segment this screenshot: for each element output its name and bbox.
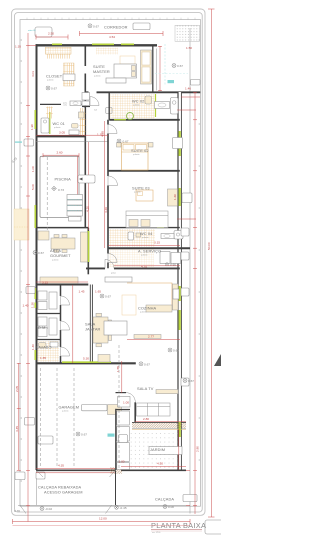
svg-text:ACESSO GARAGEM: ACESSO GARAGEM [44,490,83,495]
window top wall suite master [92,43,134,45]
svg-text:0.67: 0.67 [51,87,57,91]
hall right wall double [89,285,91,364]
window right wall jardim [179,422,181,437]
calcada divider wall [115,470,117,505]
armchair [108,405,122,415]
suite03 desk unit [126,211,168,228]
svg-text:CALÇADA: CALÇADA [155,497,174,502]
window right wall cozinha [179,286,181,301]
svg-text:1.00: 1.00 [119,460,125,464]
area gourmet top wall [36,227,88,229]
suite master wardrobe [141,50,152,84]
sala dresser [98,355,110,363]
svg-text:2.05: 2.05 [15,386,19,392]
suite master bench [106,78,126,83]
svg-text:-0.02: -0.02 [45,507,52,511]
servico bottom wall [86,267,180,269]
svg-text:5.00: 5.00 [31,184,35,190]
left dim label boxes [24,139,34,146]
svg-text:0.67: 0.67 [188,379,194,383]
svg-text:5.30: 5.30 [83,357,89,361]
wc04 bottom wall [108,247,190,249]
svg-text:SALA TV: SALA TV [137,386,154,391]
svg-text:PISCINA: PISCINA [55,177,72,182]
svg-text:p.direito: p.direito [52,259,58,262]
svg-text:4.50: 4.50 [157,462,163,466]
red dim suite height [158,46,162,91]
sliding door sala [62,361,111,363]
area gourmet bottom wall [36,284,88,286]
suite03 bottom wall [108,227,180,229]
top right concrete square [175,25,200,41]
dml appliances top room [38,291,47,300]
area gourmet grill [38,231,49,240]
svg-text:WC 04: WC 04 [140,231,153,236]
svg-text:p.direito: p.direito [134,191,140,194]
front wall label tags [15,472,25,480]
svg-text:4.45: 4.45 [15,426,19,432]
window top wall left [52,43,62,45]
svg-text:1.35: 1.35 [15,45,21,49]
svg-text:4.35: 4.35 [58,464,64,468]
svg-text:2.60: 2.60 [57,150,63,154]
sala sideboard [104,321,127,335]
suite03 bed [136,190,153,201]
svg-text:D.M.I: D.M.I [38,325,48,330]
svg-text:CORREDOR: CORREDOR [104,25,128,30]
big wall garage top [36,362,136,364]
left exterior wall [36,44,38,470]
wc04 shower [174,231,183,240]
wc02 plant [127,113,134,120]
right lot dim line [194,92,196,514]
gourmet lower counter [40,277,78,284]
svg-text:-0.45: -0.45 [120,506,127,510]
wc02 bottom wall [109,119,180,121]
svg-text:12.00: 12.00 [99,517,107,521]
svg-text:1.55: 1.55 [116,366,120,372]
wc02 floor hatch [111,94,155,119]
closet island [63,74,75,81]
wc02 shower [171,98,179,115]
window suite03 bottom [157,226,164,228]
svg-text:50.00: 50.00 [207,242,211,250]
servico floor hatch [109,250,154,268]
window left wall terrace [34,205,36,228]
wc02 sink counter [155,102,170,109]
svg-text:MASTER: MASTER [93,69,110,74]
svg-text:1.45: 1.45 [79,290,85,294]
suite02 bed [122,143,149,170]
sheet outer frame [12,9,205,515]
window left wall lavabo [34,350,36,360]
svg-text:0.67: 0.67 [144,362,150,366]
faint deck strip outside left [14,209,29,240]
svg-text:p.direito: p.direito [142,236,148,239]
svg-text:0.67: 0.67 [81,433,87,437]
garagem label box [82,405,108,411]
dml block right wall [60,285,62,364]
garage depth dim line [17,363,21,470]
svg-text:4.35: 4.35 [100,131,104,137]
svg-text:COZINHA: COZINHA [138,306,157,311]
suite02 bottom wall [108,170,180,172]
wc04 toilet [128,232,134,240]
suite03 wardrobe [168,189,178,206]
area gourmet counter [81,232,88,262]
suite02 side tables [117,143,122,148]
jardim planter [149,447,182,455]
area gourmet right wall [87,228,89,274]
svg-text:p.direito: p.direito [133,104,139,107]
svg-text:GOURMET: GOURMET [50,253,71,258]
svg-text:4.54: 4.54 [109,35,115,39]
central corridor wall (right rooms left wall) [107,120,109,268]
suite master inner right wall [152,45,154,93]
svg-text:1.50: 1.50 [186,46,192,50]
terrace step line [36,140,108,142]
wc01 shower [41,118,49,133]
lavabo sink [50,342,58,347]
svg-text:1.65: 1.65 [95,290,101,294]
closet hanging block top [46,47,72,54]
shower screen wc02 [155,94,157,117]
svg-text:4.20: 4.20 [85,206,89,212]
sala tv rack [156,390,178,394]
svg-text:p.direito: p.direito [62,410,68,413]
ruler dots left [21,39,22,481]
top left rounded box [35,27,52,37]
svg-text:1.30: 1.30 [31,302,35,308]
svg-text:0.00: 0.00 [168,505,174,509]
ruler ticks top [27,18,195,20]
closet / suite master dividing wall [84,45,86,228]
svg-text:0.70: 0.70 [14,509,20,513]
suite master bed [114,64,137,78]
dml appliances [38,317,47,326]
kitchen rug outline [122,295,136,315]
north triangle [214,354,221,366]
svg-text:2.80: 2.80 [196,446,200,452]
svg-text:GARAGEM: GARAGEM [59,404,80,409]
svg-text:3.15: 3.15 [154,241,160,245]
hatch on wall start [110,467,122,474]
pool [40,156,79,217]
svg-text:0.67: 0.67 [38,251,44,255]
svg-text:esc: 1/100: esc: 1/100 [152,532,160,534]
calcada label box [183,495,197,502]
porch diagonal hatch band [132,423,186,428]
svg-text:WC 01: WC 01 [53,121,65,126]
svg-text:LAVABO: LAVABO [36,345,52,350]
svg-text:0.67: 0.67 [105,295,111,299]
wc04 sink [161,234,174,239]
entry vestibule walls [115,409,117,470]
big window area gourmet [87,231,89,262]
svg-text:p.direito: p.direito [133,153,139,156]
wall under suite master / wc02 top [85,91,200,93]
wc02 toilet [145,96,152,104]
lavabo toilet [39,343,47,349]
sidewalk curb [18,504,190,506]
svg-text:1.00: 1.00 [31,166,35,172]
window right wall suite03 [179,188,181,206]
kitchen top counter [105,277,132,282]
svg-text:SUITE 02: SUITE 02 [131,148,149,153]
svg-text:0.67: 0.67 [177,64,183,68]
porch edge [132,421,186,423]
left main dim line [27,33,29,522]
svg-text:4.01: 4.01 [31,71,35,77]
svg-text:JANTAR: JANTAR [85,327,101,332]
sala tv left wall [134,402,136,422]
svg-text:0.67: 0.67 [123,140,129,144]
cozinha counter [146,305,172,312]
far right overall dim [210,9,212,517]
jardim dotted area [123,431,179,469]
svg-text:p.direito: p.direito [140,311,146,314]
svg-text:4.70: 4.70 [141,264,147,268]
svg-text:corta: corta [63,104,67,107]
svg-text:JARDIM: JARDIM [150,447,165,452]
piscina label box [78,175,95,183]
suite master outer gray line [156,49,158,91]
window left wall dml [34,288,36,299]
window right wall sala tv [179,310,181,330]
svg-text:1.00: 1.00 [123,401,129,405]
svg-text:3.05: 3.05 [59,131,65,135]
svg-text:WC 02: WC 02 [132,99,144,104]
svg-text:1.46: 1.46 [185,87,191,91]
svg-text:2.50: 2.50 [48,32,54,36]
svg-text:gelad.: gelad. [111,273,116,275]
cozinha fridge [173,289,179,299]
svg-text:2.80: 2.80 [143,417,149,421]
front wall [36,469,186,471]
svg-text:p.direito: p.direito [47,79,53,82]
svg-text:1.90: 1.90 [30,124,34,130]
lot boundary left lower [36,470,38,505]
door arcs corridor [108,125,118,263]
svg-text:2.77: 2.77 [148,335,154,339]
svg-text:1.35: 1.35 [40,356,46,360]
window left wall wc01 [34,110,36,129]
svg-text:0.73: 0.73 [58,188,64,192]
closet hanging block right [64,63,75,86]
ruler dots right [199,40,200,461]
wc04 floor hatch [109,229,155,247]
svg-text:SUITE 03: SUITE 03 [132,186,150,191]
top exterior wall [36,44,158,46]
sala jantar table [93,317,108,343]
svg-text:p.direito: p.direito [141,253,147,256]
lot boundary right [189,28,191,514]
wc01 toilet [72,124,79,129]
wc01 bottom wall [36,135,85,137]
cozinha overhead cabinets (orange outline) [127,283,172,310]
right exterior wall [178,92,182,470]
svg-text:1.40: 1.40 [31,344,35,350]
svg-text:CLOSET: CLOSET [46,74,63,79]
dml horizontal walls [36,313,61,315]
svg-text:p.direito: p.direito [54,126,60,129]
svg-text:vista 01: vista 01 [28,29,36,32]
lavabo floor hatch [38,341,60,362]
center dashed line [118,345,120,468]
servico tank [160,252,170,264]
cozinha island shelf [134,335,161,339]
corridor fixtures near closet [82,93,90,101]
area gourmet table [51,238,75,249]
driveway chamfers [20,470,116,513]
entry steps [117,411,130,425]
svg-text:p.direito: p.direito [94,75,100,78]
wc01 floor hatch [79,108,85,135]
closet bottom wall [40,103,85,105]
svg-text:1.60: 1.60 [173,194,177,200]
bottom right title box [205,520,223,534]
garage dashed lines [41,368,75,468]
door arcs hall [61,296,70,356]
wc01 bidet [69,130,79,135]
svg-text:3.15: 3.15 [42,281,48,285]
sheet middle frame [15,13,203,512]
svg-text:0.67: 0.67 [173,349,179,353]
window right wall suite02 [179,131,181,156]
sheet inner ruler frame [20,20,201,507]
sofa [137,403,171,416]
svg-text:A. SERVIÇO: A. SERVIÇO [138,248,161,253]
corredor label box [133,23,150,30]
pool ladder [67,195,83,222]
wc02 left wall [108,93,110,120]
shower screen wc01 [49,112,51,134]
closet sink counter [70,101,81,106]
suite master top hatch [96,48,118,55]
svg-text:0.67: 0.67 [93,24,99,28]
